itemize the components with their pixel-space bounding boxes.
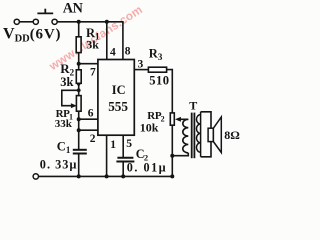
svg-text:IC: IC	[112, 83, 126, 97]
svg-text:AN: AN	[63, 1, 84, 17]
svg-text:33k: 33k	[55, 118, 73, 130]
svg-text:0. 33µ: 0. 33µ	[40, 157, 78, 171]
transformer T primary winding	[183, 119, 189, 153]
svg-text:3k: 3k	[86, 38, 99, 52]
svg-text:5: 5	[126, 138, 132, 150]
speaker driver box	[208, 128, 213, 141]
wire R3 right + corner down	[167, 70, 173, 113]
transformer T core	[192, 113, 195, 159]
wire pin8 drop	[122, 22, 124, 60]
svg-text:555: 555	[108, 99, 128, 114]
terminal circle bottom-left	[33, 174, 38, 179]
switch AN left contact circle	[33, 19, 38, 24]
svg-text:1: 1	[110, 139, 116, 151]
wire top rail left segment	[19, 21, 33, 23]
svg-text:4: 4	[110, 46, 116, 58]
junction dots	[77, 20, 175, 179]
wire R1 top lead	[78, 22, 80, 37]
switch AN right contact circle	[52, 19, 57, 24]
potentiometer RP1 wiper arrow	[71, 103, 77, 108]
capacitor C1 plates	[73, 150, 87, 154]
wire pin1 drop	[106, 135, 108, 176]
wire pin6	[79, 118, 99, 120]
svg-text:8: 8	[125, 46, 131, 58]
potentiometer RP1 body	[76, 96, 81, 112]
svg-text:510: 510	[149, 74, 169, 88]
svg-text:8Ω: 8Ω	[224, 128, 240, 142]
svg-text:6: 6	[88, 107, 94, 119]
resistor R3 body	[148, 67, 166, 72]
svg-text:2: 2	[90, 133, 96, 145]
svg-text:VDD(6V): VDD(6V)	[3, 25, 61, 44]
wire pin3	[134, 69, 148, 71]
svg-text:7: 7	[90, 66, 96, 78]
wire RP2 wiper lead	[180, 118, 189, 120]
svg-text:3k: 3k	[60, 75, 73, 89]
wire secondary vertical lead	[200, 112, 202, 157]
wire C1 bottom lead	[78, 154, 80, 176]
wire R1-R2 lead	[78, 53, 80, 70]
wire RP2 bottom lead	[171, 125, 173, 176]
wire C2 bottom lead	[122, 162, 124, 176]
transformer T secondary winding	[197, 115, 201, 153]
switch AN actuator bar	[37, 9, 53, 14]
wire pin2	[79, 129, 99, 131]
wire secondary to speaker top	[201, 112, 211, 128]
wire RP1 loop	[62, 90, 79, 105]
wire top rail right segment	[57, 21, 124, 23]
svg-text:10k: 10k	[140, 121, 159, 135]
wire pin7	[79, 63, 99, 65]
wire R2-RP1 lead	[78, 83, 80, 95]
capacitor C2 plates	[116, 158, 134, 162]
potentiometer RP2 wiper arrow	[175, 117, 181, 122]
wire bottom rail	[39, 175, 173, 177]
wire secondary to speaker bottom	[201, 142, 211, 157]
speaker cone	[213, 117, 221, 153]
resistor R2 body	[76, 70, 81, 84]
svg-text:0. 01µ: 0. 01µ	[127, 160, 167, 174]
IC 555 body	[98, 60, 134, 136]
wire RP1 bottom lead down to C1	[78, 111, 80, 149]
wire pin5 drop	[122, 135, 124, 157]
terminal circle top-left	[14, 19, 19, 24]
potentiometer RP2 body	[170, 113, 174, 125]
wire transformer primary bottom lead	[172, 153, 188, 156]
svg-text:3: 3	[138, 59, 144, 71]
svg-text:T: T	[189, 99, 197, 113]
wire pin4 drop	[106, 22, 108, 60]
resistor R1 body	[76, 37, 81, 53]
